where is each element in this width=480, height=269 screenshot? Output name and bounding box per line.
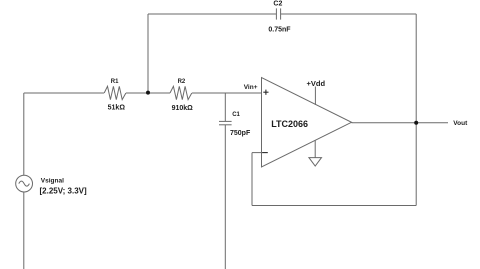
wire C1 tap from main wire — [224, 93, 226, 121]
svg-text:Vsignal: Vsignal — [41, 177, 64, 184]
wire C1 bottom to bottom edge — [224, 125, 226, 269]
op-amp minus input symbol — [262, 152, 268, 154]
wire top rail right of C2 — [281, 13, 417, 15]
wire left horizontal from source rail to R1 — [24, 92, 104, 94]
capacitor C2 — [276, 8, 280, 19]
resistor R1 — [104, 86, 126, 99]
wire left vertical rail down to source — [23, 93, 25, 175]
svg-text:+Vdd: +Vdd — [307, 79, 326, 88]
op-amp U1 LTC2066 triangle — [262, 78, 352, 168]
op-amp plus input symbol — [263, 90, 268, 95]
svg-text:C2: C2 — [273, 1, 282, 8]
op-amp negative supply pin stem — [314, 140, 316, 158]
wire feedback right vertical up to output node — [415, 123, 417, 206]
voltage source Vsignal circle — [16, 175, 33, 192]
wire output to Vout — [352, 122, 449, 124]
svg-text:[2.25V; 3.3V]: [2.25V; 3.3V] — [40, 187, 87, 196]
svg-text:910kΩ: 910kΩ — [172, 105, 194, 112]
wire feedback left vertical — [251, 153, 253, 206]
wire right rail down to output node — [415, 14, 417, 123]
wire junction up to top feedback rail — [147, 14, 149, 93]
op-amp +Vdd supply pin — [314, 87, 316, 105]
ground — [309, 158, 322, 166]
node output dot — [414, 121, 418, 125]
svg-text:Vin+: Vin+ — [244, 84, 258, 91]
resistor R2 — [170, 86, 192, 99]
wire feedback bottom horizontal — [252, 205, 416, 207]
wire below source to bottom edge — [23, 192, 25, 269]
capacitor C1 — [219, 121, 232, 124]
wire top rail left of C2 — [148, 13, 276, 15]
wire inverting input stub — [252, 152, 262, 154]
svg-text:750pF: 750pF — [230, 130, 251, 137]
wire R1 to R2 through junction — [126, 92, 170, 94]
svg-text:R2: R2 — [178, 79, 186, 85]
node junction dot at R1/R2 — [146, 91, 150, 95]
svg-text:51kΩ: 51kΩ — [108, 105, 126, 112]
svg-text:R1: R1 — [111, 79, 119, 85]
voltage source sine symbol — [19, 181, 30, 186]
svg-text:LTC2066: LTC2066 — [271, 119, 308, 129]
svg-text:Vout: Vout — [453, 120, 468, 127]
svg-text:C1: C1 — [232, 112, 240, 118]
wire R2 to op-amp plus input — [192, 92, 262, 94]
svg-text:0.75nF: 0.75nF — [268, 26, 291, 33]
